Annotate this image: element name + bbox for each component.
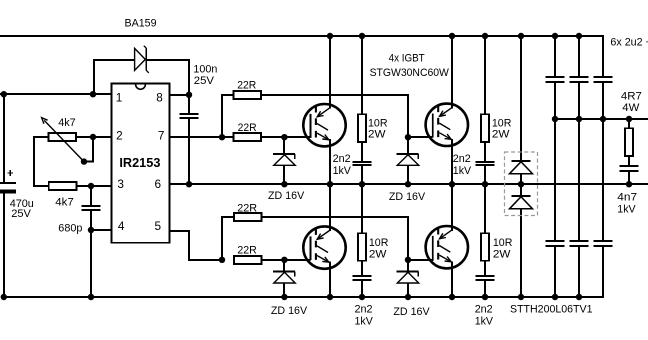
svg-text:4R7: 4R7 <box>621 90 642 102</box>
node pin2 RT junction <box>90 134 96 140</box>
resistor 22R lower-a <box>234 203 262 221</box>
capacitor 2u2 #2 top <box>569 77 588 82</box>
transistor IGBT lower-left STGW30NC60W <box>303 226 345 268</box>
capacitor 2u2 #3 top <box>593 77 612 82</box>
svg-text:2n2: 2n2 <box>475 303 493 315</box>
resistor 10R 2W upper-left <box>358 114 388 142</box>
pin 4 COM <box>118 219 125 233</box>
resistor 22R lower-b <box>234 245 262 265</box>
wire BA159 anode branch <box>94 60 134 94</box>
svg-text:1kV: 1kV <box>475 315 494 327</box>
capacitor 470u 25V electrolytic <box>0 170 34 220</box>
junction dots VS rail <box>186 181 632 187</box>
pin 2 RT <box>116 129 123 143</box>
wire 100n to VS junction <box>188 119 190 184</box>
svg-text:680p: 680p <box>58 223 82 235</box>
pin 6 VS <box>155 177 162 191</box>
node lower-right gate <box>405 257 411 263</box>
svg-text:BA159: BA159 <box>125 17 157 29</box>
svg-text:2W: 2W <box>492 128 510 140</box>
wire STTH diode column <box>520 36 522 297</box>
capacitor 4n7 1kV <box>617 166 638 216</box>
wire 22R to lower-left gate <box>261 259 310 261</box>
node CT junction <box>88 183 94 189</box>
label 6x 2u2 <box>610 36 648 48</box>
wire upper-right gate stub <box>408 136 433 138</box>
wire upper-left emitter <box>329 139 331 184</box>
pin 5 LO <box>155 219 162 233</box>
svg-text:25V: 25V <box>11 208 31 220</box>
wire Vcc feed to pin 1 <box>0 93 112 95</box>
svg-text:1kV: 1kV <box>333 165 352 177</box>
transistor IGBT upper-right STGW30NC60W <box>426 104 468 146</box>
svg-text:2W: 2W <box>368 128 386 140</box>
svg-text:1kV: 1kV <box>453 165 472 177</box>
svg-text:2n2: 2n2 <box>453 153 471 165</box>
svg-text:ZD 16V: ZD 16V <box>389 191 426 203</box>
wire snubber column lower-left <box>361 184 363 297</box>
svg-text:10R: 10R <box>493 237 513 249</box>
wire lower-right collector <box>451 184 453 231</box>
svg-text:ZD 16V: ZD 16V <box>393 306 430 318</box>
svg-text:2n2: 2n2 <box>355 303 373 315</box>
svg-text:5: 5 <box>155 219 162 233</box>
capacitor 2n2 1kV upper-left <box>333 153 372 177</box>
wire pot to pin 2 <box>77 136 112 138</box>
wire bottom 0V rail <box>2 245 604 297</box>
resistor 22R upper-a <box>234 79 262 99</box>
svg-text:1kV: 1kV <box>355 315 374 327</box>
resistor 4k7 <box>49 182 77 208</box>
potentiometer 4k7 <box>42 117 88 165</box>
junction dots mid rail <box>552 116 632 122</box>
svg-text:4: 4 <box>118 219 125 233</box>
svg-text:25V: 25V <box>194 75 215 87</box>
wire 22R to lower-right gate <box>261 217 408 260</box>
wire upper-right collector <box>451 36 453 108</box>
capacitor 2u2 #1 top <box>545 77 564 82</box>
wire output cap column 1 <box>554 36 556 297</box>
diode module STTH200L06TV1 <box>505 152 593 315</box>
wire output cap column 3 mid <box>602 83 604 240</box>
wire lower-right emitter <box>451 261 453 297</box>
svg-text:7: 7 <box>158 129 165 143</box>
label 4x IGBT STGW30NC60W <box>370 53 450 79</box>
svg-text:2W: 2W <box>369 249 387 261</box>
node HO branch junction <box>219 134 225 140</box>
resistor 10R 2W upper-right <box>481 114 511 142</box>
svg-text:STTH200L06TV1: STTH200L06TV1 <box>510 303 593 315</box>
wire 4k7 to pin 3 <box>77 185 113 187</box>
wire upper-left collector <box>329 36 331 109</box>
svg-text:4x IGBT: 4x IGBT <box>389 53 425 65</box>
node Vcc left <box>1 91 7 97</box>
resistor 10R 2W lower-left <box>358 233 388 261</box>
wire pot to 4k7 series link <box>34 137 49 186</box>
wire BA159 cathode to VB node <box>146 60 189 95</box>
transistor IGBT lower-right STGW30NC60W <box>426 226 468 268</box>
svg-text:ZD 16V: ZD 16V <box>271 305 308 317</box>
wire lower-left collector <box>329 184 331 231</box>
node lower-left gate <box>281 257 287 263</box>
capacitor 100n 25V bootstrap <box>179 64 217 119</box>
svg-text:2n2: 2n2 <box>333 153 351 165</box>
wire wiper return <box>84 137 93 162</box>
wire LO branch up to 22R <box>222 217 235 260</box>
resistor 22R upper-b <box>234 122 262 141</box>
capacitor 2u2 #6 bottom <box>593 241 612 246</box>
svg-text:6: 6 <box>155 177 162 191</box>
wire left rail lower (470u to 0V rail) <box>3 193 5 297</box>
wire 680p to 0V <box>90 210 92 297</box>
wire pin 7 HO to 22R <box>170 136 235 138</box>
svg-text:IR2153: IR2153 <box>119 155 160 170</box>
node upper-left gate <box>281 134 287 140</box>
capacitor 2n2 1kV lower-left <box>352 276 373 327</box>
svg-text:4k7: 4k7 <box>58 117 75 129</box>
pin 8 VB <box>156 91 163 105</box>
junction dots bottom rail <box>1 294 583 300</box>
svg-text:3: 3 <box>117 177 124 191</box>
op-amp U1 IR2153 driver IC <box>112 84 170 243</box>
capacitor 2u2 #5 bottom <box>569 241 588 246</box>
svg-text:22R: 22R <box>238 122 257 134</box>
svg-text:8: 8 <box>156 91 163 105</box>
wire mid output rail <box>555 118 648 120</box>
capacitor 2n2 1kV upper-right <box>453 153 495 177</box>
pin 1 Vcc <box>116 90 123 104</box>
wire pin 8 VB node <box>170 95 189 113</box>
svg-text:22R: 22R <box>237 79 256 91</box>
wire lower-right gate stub <box>408 259 434 261</box>
svg-text:4W: 4W <box>622 102 639 114</box>
svg-text:STGW30NC60W: STGW30NC60W <box>370 67 450 79</box>
capacitor 2u2 #4 bottom <box>545 241 564 246</box>
wire left rail upper (Vcc to 470u) <box>3 94 5 183</box>
resistor 4R7 4W <box>621 90 642 156</box>
svg-text:ZD 16V: ZD 16V <box>268 190 305 202</box>
capacitor 680p <box>58 206 100 235</box>
pin 7 HO <box>158 129 165 143</box>
wire pin 4 COM <box>91 229 112 231</box>
svg-text:2: 2 <box>116 129 123 143</box>
capacitor 2n2 1kV lower-right <box>475 276 495 327</box>
wire CT node to 680p <box>90 186 92 206</box>
node COM junction <box>88 227 94 233</box>
wire lower-left emitter <box>329 262 331 298</box>
svg-text:1: 1 <box>116 90 123 104</box>
svg-text:22R: 22R <box>237 245 256 257</box>
wire snubber column upper-left <box>361 36 363 184</box>
zener diode ZD 16V lower-right <box>393 260 430 318</box>
svg-text:2W: 2W <box>493 249 511 261</box>
wire HO branch up to 22R upper <box>222 95 235 137</box>
wire upper-right emitter <box>451 139 453 184</box>
wire output cap column 2 <box>578 36 580 297</box>
wire top +DC rail <box>0 36 604 77</box>
wire 4R7 4n7 column <box>628 119 630 184</box>
wire 22R to upper-right gate <box>260 95 408 137</box>
svg-text:1kV: 1kV <box>617 204 636 216</box>
node BA159 anode junction <box>90 91 96 97</box>
zener diode ZD 16V lower-left <box>271 260 308 317</box>
pin 3 CT <box>117 177 124 191</box>
diode BA159 bootstrap <box>125 17 157 73</box>
wire VS half-bridge rail (pin 6) <box>170 183 648 185</box>
wire pin 5 LO jog <box>170 231 222 260</box>
transistor IGBT upper-left STGW30NC60W <box>303 104 345 146</box>
svg-text:10R: 10R <box>369 237 389 249</box>
wire 22R to upper-left gate <box>260 136 310 138</box>
resistor 10R 2W lower-right <box>481 233 512 261</box>
svg-text:4n7: 4n7 <box>617 192 637 204</box>
zener diode ZD 16V upper-left <box>268 137 305 202</box>
wire snubber column lower-right <box>484 184 486 297</box>
wire snubber column upper-right <box>484 36 486 184</box>
svg-text:22R: 22R <box>237 203 257 215</box>
junction dots top rail <box>327 33 582 39</box>
zener diode ZD 16V upper-right <box>389 137 426 203</box>
node VB junction <box>186 92 192 98</box>
svg-text:4k7: 4k7 <box>55 196 74 208</box>
node upper-right gate <box>405 134 411 140</box>
node LO branch junction <box>219 257 225 263</box>
svg-text:100n: 100n <box>193 64 217 76</box>
svg-text:6x 2u2 +: 6x 2u2 + <box>610 36 648 48</box>
